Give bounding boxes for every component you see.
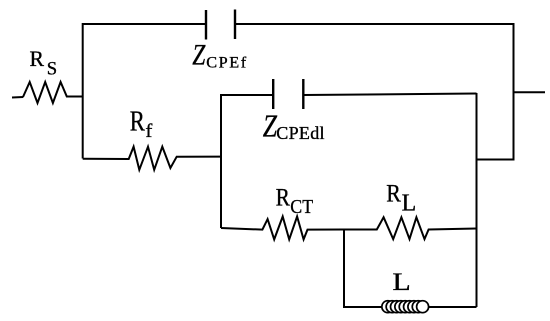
label L — [392, 268, 410, 296]
capacitor ZCPEdl right plate — [302, 79, 304, 109]
label RS — [30, 47, 58, 80]
svg-text:R: R — [130, 105, 145, 137]
svg-text:S: S — [47, 59, 57, 80]
svg-text:CPEf: CPEf — [206, 54, 247, 72]
wire top right and outer right vertical — [235, 24, 514, 160]
wire left vertical and top — [83, 24, 206, 159]
svg-text:R: R — [276, 184, 291, 212]
svg-text:R: R — [386, 180, 401, 208]
capacitor ZCPEf right plate — [234, 10, 236, 40]
capacitor ZCPEdl left plate — [272, 79, 274, 109]
inductor L coil — [382, 301, 429, 313]
wire ZCPEdl to right vertical — [304, 94, 477, 96]
resistor RS — [23, 82, 83, 103]
svg-text:CT: CT — [290, 196, 313, 218]
wire inner right vertical — [476, 93, 478, 307]
label Rf — [130, 105, 153, 142]
svg-text:f: f — [145, 121, 152, 142]
svg-text:R: R — [30, 47, 45, 71]
wire inner left vertical — [221, 95, 273, 228]
svg-text:Z: Z — [192, 38, 206, 71]
label ZCPEdl — [263, 110, 325, 144]
capacitor ZCPEf left plate — [205, 10, 207, 40]
resistor Rf — [83, 147, 221, 170]
label RCT — [276, 184, 314, 218]
wire bottom loop — [344, 230, 477, 308]
svg-text:CPEdl: CPEdl — [276, 123, 325, 143]
svg-text:L: L — [392, 268, 410, 296]
resistor RCT — [221, 217, 344, 240]
label RL — [386, 180, 416, 217]
svg-text:L: L — [402, 191, 417, 217]
label ZCPEf — [192, 38, 247, 72]
wire input tail — [12, 96, 23, 99]
wire output stub — [514, 91, 546, 93]
resistor RL — [344, 217, 477, 239]
